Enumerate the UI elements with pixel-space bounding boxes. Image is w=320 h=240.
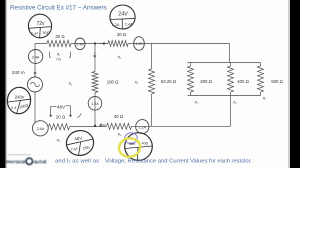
svg-text:2.4A: 2.4A xyxy=(37,127,45,131)
ammeter A6 2.4A bottom left xyxy=(32,121,48,136)
svg-text:duTnfi: duTnfi xyxy=(34,160,47,165)
svg-text:1.2A: 1.2A xyxy=(91,102,99,106)
svg-text:72v: 72v xyxy=(56,58,62,62)
arrow down on middle branch xyxy=(94,52,97,58)
ammeter A1 2.4A source branch xyxy=(28,50,42,64)
svg-text:R₃: R₃ xyxy=(69,82,73,86)
svg-text:20 Ω: 20 Ω xyxy=(56,114,66,119)
svg-text:2.4ᴬ: 2.4ᴬ xyxy=(71,148,78,152)
answer circle R1 values xyxy=(28,13,53,38)
svg-text:400 Ω: 400 Ω xyxy=(237,79,249,84)
resistor R7 600ohm vertical xyxy=(258,63,264,96)
svg-text:240 Vₜ: 240 Vₜ xyxy=(12,70,26,75)
svg-text:72v: 72v xyxy=(36,21,45,27)
svg-text:R₈: R₈ xyxy=(118,133,122,137)
wire bank return vertical xyxy=(230,96,232,127)
svg-text:30 Ω: 30 Ω xyxy=(55,34,65,39)
answer circle R8 values (highlighted) xyxy=(125,133,153,161)
highlight yellow pen ellipse xyxy=(118,137,142,159)
resistor R8 40ohm bottom xyxy=(107,123,132,129)
svg-text:20 Ω: 20 Ω xyxy=(117,32,127,37)
ammeter A5 1.2A bottom right xyxy=(136,120,149,134)
resistor R6 400ohm vertical xyxy=(228,63,234,96)
svg-text:200 Ω: 200 Ω xyxy=(200,79,212,84)
svg-text:40 Ω: 40 Ω xyxy=(114,114,124,119)
wire tick mark near bottom junction xyxy=(78,113,82,117)
svg-text:R₉: R₉ xyxy=(57,139,61,143)
svg-text:30Ω: 30Ω xyxy=(42,30,49,35)
resistor R4 63.25ohm vertical xyxy=(149,69,155,94)
resistor R1 30ohm top xyxy=(47,40,71,46)
svg-text:PHYSKSF: PHYSKSF xyxy=(6,160,26,165)
svg-text:1.2A: 1.2A xyxy=(136,42,144,46)
ammeter A2 2.4A after R1 xyxy=(75,38,85,50)
svg-text:2.4A: 2.4A xyxy=(125,23,133,27)
watermark logo row xyxy=(6,158,46,165)
svg-text:2.4ᴬ: 2.4ᴬ xyxy=(31,31,38,36)
svg-text:40Ω: 40Ω xyxy=(142,142,149,146)
resistor R2 20ohm top xyxy=(108,41,128,47)
svg-text:R₄: R₄ xyxy=(135,81,139,85)
node junction bottom middle xyxy=(94,125,96,127)
arrow up above source xyxy=(34,72,37,77)
svg-text:600 Ω: 600 Ω xyxy=(271,79,283,84)
arrow left on bottom wire xyxy=(100,124,106,127)
wire 63.25 branch vertical xyxy=(151,44,153,127)
wire middle branch vertical xyxy=(94,44,96,127)
left letterbox bar xyxy=(0,0,6,168)
ammeter A4 1.2A middle branch xyxy=(88,97,102,111)
node bank top bus xyxy=(188,62,261,64)
svg-text:2.4A: 2.4A xyxy=(32,55,40,59)
svg-text:2.4A: 2.4A xyxy=(77,43,85,47)
svg-text:R₅: R₅ xyxy=(195,101,199,105)
svg-text:48V: 48V xyxy=(57,105,66,110)
wire top horizontal run xyxy=(35,43,230,45)
svg-text:R₆: R₆ xyxy=(233,101,237,105)
svg-text:100 Ω: 100 Ω xyxy=(107,79,119,84)
bracket R1 72v xyxy=(50,52,71,59)
resistor R3 100ohm middle vertical xyxy=(92,72,98,93)
svg-text:and Iₜ as well as: and Iₜ as well as xyxy=(55,159,99,165)
svg-text:240v: 240v xyxy=(15,95,25,100)
svg-text:24V: 24V xyxy=(118,12,128,18)
highlight blue pen ellipse xyxy=(125,133,137,144)
svg-text:Voltage, Resistance and Curren: Voltage, Resistance and Current Values f… xyxy=(105,159,252,165)
svg-text:1.2A: 1.2A xyxy=(139,125,147,129)
svg-text:1.2A: 1.2A xyxy=(112,23,120,27)
answer circle R9 values xyxy=(65,129,95,157)
svg-text:Government info ch: Government info ch xyxy=(8,153,31,157)
answer ellipse VT IT RT xyxy=(6,86,32,115)
bracket 48V across R9 xyxy=(50,106,72,117)
resistor R9 20ohm bottom left xyxy=(49,124,70,130)
voltage source VT 240V xyxy=(28,77,43,92)
ammeter A3 1.2A after R2 xyxy=(134,37,145,51)
wire feed to right bank xyxy=(229,44,231,63)
svg-text:2.4: 2.4 xyxy=(11,106,16,110)
wire bottom return run xyxy=(48,125,230,128)
resistor R5 200ohm vertical xyxy=(188,63,194,96)
node junction top middle xyxy=(94,42,96,44)
svg-text:Resistive Circuit Ex #17 ~ Ans: Resistive Circuit Ex #17 ~ Answers xyxy=(10,4,107,11)
right letterbox bar xyxy=(290,0,300,168)
arrow right on top wire xyxy=(100,42,106,45)
svg-text:63.25 Ω: 63.25 Ω xyxy=(161,79,177,84)
node bank bottom bus xyxy=(188,95,261,97)
answer circle R2 values xyxy=(110,5,135,29)
svg-text:48v: 48v xyxy=(129,141,135,146)
wire top left vertical (source branch) xyxy=(34,44,36,124)
